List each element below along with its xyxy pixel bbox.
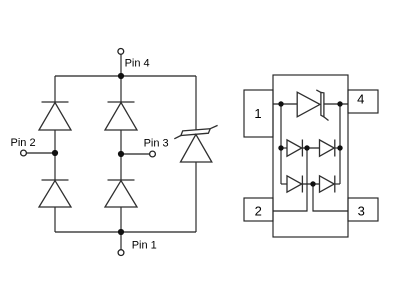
svg-text:Pin 1: Pin 1 (132, 240, 157, 252)
svg-text:3: 3 (358, 203, 365, 218)
svg-text:1: 1 (254, 106, 261, 121)
svg-text:Pin 2: Pin 2 (11, 137, 36, 149)
svg-text:Pin 3: Pin 3 (144, 137, 169, 149)
svg-text:2: 2 (255, 203, 262, 218)
svg-text:Pin 4: Pin 4 (125, 57, 150, 69)
svg-text:4: 4 (357, 91, 364, 106)
